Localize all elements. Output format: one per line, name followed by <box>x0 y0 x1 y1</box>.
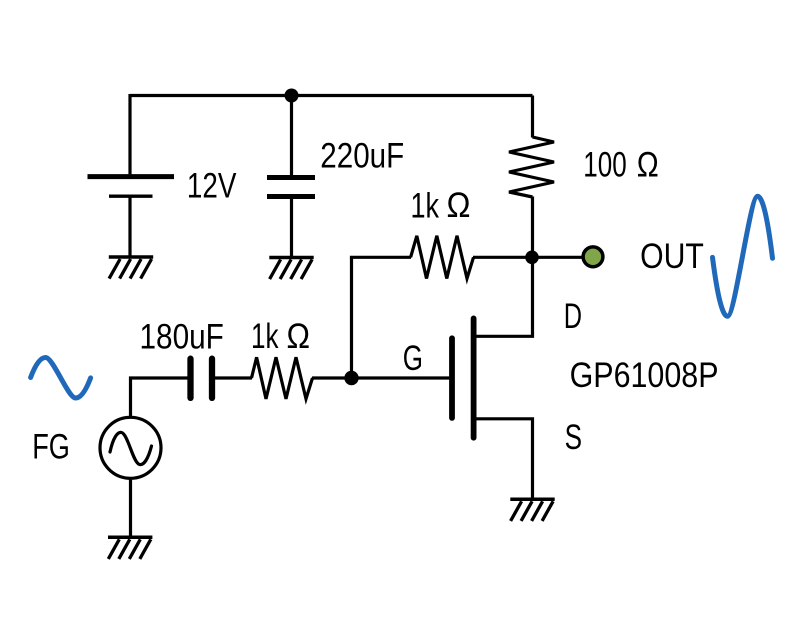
wire feedback left segment <box>350 256 411 259</box>
resistor R1 100 ohm <box>509 137 554 197</box>
wire capacitor C1 bottom lead <box>290 199 293 256</box>
battery B1 negative plate <box>109 194 153 197</box>
wire feedback right segment <box>473 256 533 259</box>
source FG circle <box>100 417 161 478</box>
svg-text:OUT: OUT <box>640 237 704 276</box>
output sine waveform <box>713 196 773 316</box>
svg-text:Ω: Ω <box>287 317 311 356</box>
svg-text:12V: 12V <box>187 167 237 206</box>
wire FG bottom lead <box>129 478 132 536</box>
svg-text:1k: 1k <box>251 317 279 356</box>
ground (C1) <box>269 258 313 280</box>
battery B1 positive plate <box>88 174 175 179</box>
wire OUT node to terminal <box>533 256 584 259</box>
terminal OUT (green) <box>583 247 603 267</box>
svg-text:FG: FG <box>32 428 70 467</box>
wire FG to input node <box>131 378 188 417</box>
ground (FG) <box>108 537 152 559</box>
wire Q1 source lead <box>476 419 533 498</box>
wire battery negative lead <box>128 197 131 256</box>
resistor R3 1k ohm feedback <box>411 236 474 279</box>
ground (Q1 source) <box>510 499 554 521</box>
wire R1 to OUT node <box>531 197 534 258</box>
svg-text:S: S <box>565 418 582 457</box>
svg-text:1k: 1k <box>411 187 440 226</box>
wire C2 to R2 <box>215 376 252 379</box>
svg-text:GP61008P: GP61008P <box>570 356 719 395</box>
wire top rail to R1 <box>531 96 534 138</box>
wire capacitor C1 top lead <box>290 96 293 176</box>
wire battery positive lead <box>128 94 131 174</box>
capacitor C2 left plate <box>187 359 193 398</box>
wire R2 to gate <box>312 376 449 379</box>
node gate junction <box>344 371 358 385</box>
svg-text:100: 100 <box>583 146 626 185</box>
node OUT junction <box>525 250 539 264</box>
wire feedback vertical <box>350 257 353 378</box>
capacitor C1 top plate <box>267 175 315 180</box>
wire Q1 drain lead <box>476 258 533 336</box>
ground (battery) <box>109 257 153 279</box>
svg-text:G: G <box>403 339 423 378</box>
source FG sine symbol <box>110 432 152 464</box>
svg-text:Ω: Ω <box>447 186 471 225</box>
transistor Q1 gate bar <box>449 338 455 418</box>
svg-text:D: D <box>564 297 582 336</box>
input sine waveform <box>31 358 91 399</box>
capacitor C2 right plate <box>209 359 215 398</box>
transistor Q1 channel bar <box>471 318 477 437</box>
resistor R2 1k ohm input <box>252 357 313 399</box>
capacitor C1 bottom plate <box>267 194 315 199</box>
svg-text:220uF: 220uF <box>320 136 404 175</box>
wire top rail <box>130 94 533 97</box>
node junction top rail <box>285 89 299 103</box>
svg-text:Ω: Ω <box>637 145 659 184</box>
svg-text:180uF: 180uF <box>140 317 224 356</box>
